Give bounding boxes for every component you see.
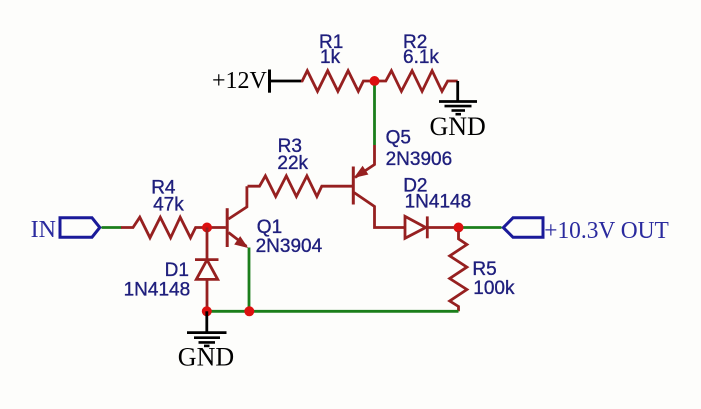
svg-text:1N4148: 1N4148 xyxy=(405,191,472,212)
svg-text:Q1: Q1 xyxy=(257,217,282,238)
svg-text:R5: R5 xyxy=(472,259,496,280)
resistor R5 xyxy=(450,231,467,311)
wire node A down to Q5 emitter xyxy=(373,86,376,146)
node E junction dot (D1/bottom rail/GND) xyxy=(202,306,212,316)
node B junction dot (R4/D1/Q1 base) xyxy=(202,223,212,233)
wire Q1 emitter down xyxy=(248,248,251,312)
resistor R3 xyxy=(248,176,353,197)
svg-text:6.1k: 6.1k xyxy=(403,47,439,68)
port OUT xyxy=(503,218,669,244)
svg-text:22k: 22k xyxy=(277,153,308,174)
svg-text:1N4148: 1N4148 xyxy=(124,280,191,301)
svg-text:100k: 100k xyxy=(473,278,515,299)
wire +12V to R1 xyxy=(270,80,302,83)
svg-text:2N3904: 2N3904 xyxy=(256,236,323,257)
port IN xyxy=(31,217,100,243)
wire R2 to GND xyxy=(456,81,459,101)
svg-text:GND: GND xyxy=(178,342,234,371)
svg-text:2N3906: 2N3906 xyxy=(386,149,453,170)
transistor Q5 2N3906 xyxy=(353,145,405,228)
svg-text:Q5: Q5 xyxy=(386,127,411,148)
resistor R2 xyxy=(375,71,458,92)
resistor R4 xyxy=(121,217,207,238)
svg-text:1k: 1k xyxy=(320,47,341,68)
svg-text:GND: GND xyxy=(430,112,486,141)
wire bottom rail xyxy=(207,310,459,313)
ground GND right xyxy=(430,102,486,141)
svg-text:+12V: +12V xyxy=(212,68,268,94)
diode D2 1N4148 xyxy=(405,216,456,238)
svg-text:+10.3V OUT: +10.3V OUT xyxy=(544,218,669,244)
wire node E to GND xyxy=(205,311,208,332)
node C junction dot (D2/R5/OUT) xyxy=(454,223,464,233)
wire node C to OUT port xyxy=(459,226,502,229)
node D junction dot (Q1 emitter/bottom rail) xyxy=(244,306,254,316)
svg-text:IN: IN xyxy=(31,217,56,243)
node A junction dot (R1/R2/Q5) xyxy=(370,76,380,86)
+12V supply terminal xyxy=(212,68,270,94)
wire IN to R4 xyxy=(102,226,122,229)
resistor R1 xyxy=(301,71,375,92)
diode D1 1N4148 xyxy=(195,228,219,312)
wire node B to Q1 base xyxy=(207,226,226,229)
ground GND bottom xyxy=(178,333,234,372)
transistor Q1 2N3904 xyxy=(227,186,248,248)
svg-text:47k: 47k xyxy=(153,194,184,215)
svg-text:D1: D1 xyxy=(165,260,189,281)
